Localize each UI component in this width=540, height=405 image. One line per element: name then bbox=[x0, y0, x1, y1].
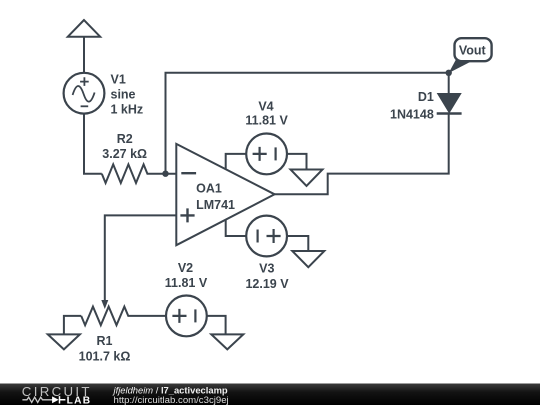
svg-text:3.27 kΩ: 3.27 kΩ bbox=[102, 147, 147, 161]
svg-text:sine: sine bbox=[111, 88, 136, 102]
svg-text:LAB: LAB bbox=[67, 396, 92, 405]
svg-text:12.19 V: 12.19 V bbox=[245, 277, 289, 291]
svg-text:http://circuitlab.com/c3cj9ej: http://circuitlab.com/c3cj9ej bbox=[114, 395, 229, 405]
svg-text:R2: R2 bbox=[117, 132, 133, 146]
svg-text:1 kHz: 1 kHz bbox=[111, 103, 144, 117]
svg-text:V2: V2 bbox=[178, 261, 193, 275]
svg-text:1N4148: 1N4148 bbox=[390, 108, 434, 122]
svg-text:jfjeldheim / l7_activeclamp: jfjeldheim / l7_activeclamp bbox=[112, 384, 228, 395]
svg-text:11.81 V: 11.81 V bbox=[165, 276, 208, 290]
svg-text:D1: D1 bbox=[418, 90, 434, 104]
svg-text:101.7 kΩ: 101.7 kΩ bbox=[79, 350, 131, 364]
svg-text:V1: V1 bbox=[111, 73, 126, 87]
svg-text:LM741: LM741 bbox=[196, 198, 235, 212]
svg-text:OA1: OA1 bbox=[196, 181, 222, 195]
svg-text:R1: R1 bbox=[97, 334, 113, 348]
svg-text:11.81 V: 11.81 V bbox=[245, 114, 288, 128]
svg-text:V4: V4 bbox=[258, 100, 273, 114]
svg-text:V3: V3 bbox=[259, 262, 274, 276]
svg-text:Vout: Vout bbox=[459, 43, 487, 57]
